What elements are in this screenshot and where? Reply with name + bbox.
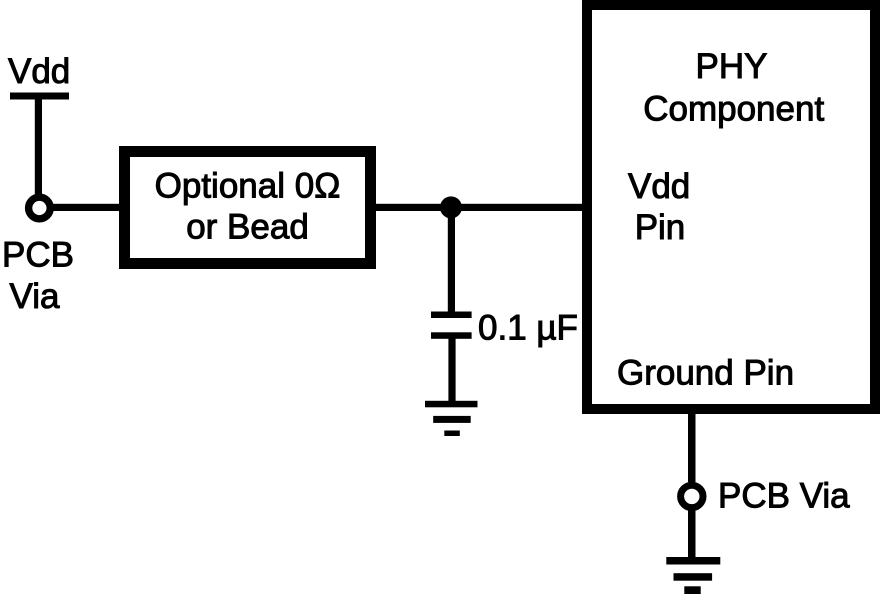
svg-text:0.1 µF: 0.1 µF (478, 309, 578, 348)
svg-text:or Bead: or Bead (186, 208, 309, 247)
svg-text:Ground Pin: Ground Pin (617, 354, 794, 393)
svg-text:Via: Via (10, 277, 60, 316)
label PHY Component (643, 47, 824, 128)
pin label Vdd Pin (628, 167, 690, 247)
svg-text:PCB Via: PCB Via (718, 477, 850, 516)
svg-text:Vdd: Vdd (628, 167, 690, 206)
wire (688, 414, 696, 482)
PHY component box U1 (587, 5, 875, 409)
svg-text:Optional 0Ω: Optional 0Ω (155, 167, 341, 206)
capacitor C1 (431, 312, 472, 339)
wire (35, 99, 42, 196)
svg-text:Vdd: Vdd (8, 52, 70, 91)
ground (below capacitor) (425, 401, 478, 436)
resistor R1 box (Optional 0 ohm or Bead) (125, 152, 371, 264)
PCB via (left) (29, 197, 51, 219)
junction node A (440, 196, 462, 218)
wire (448, 207, 455, 312)
svg-text:PCB: PCB (2, 236, 74, 275)
wire (688, 510, 696, 557)
svg-text:Pin: Pin (635, 208, 686, 247)
value label Optional 0 ohm or Bead (155, 167, 341, 247)
label PCB Via (left) (2, 236, 74, 317)
wire (448, 338, 455, 402)
svg-text:Component: Component (643, 89, 824, 128)
PCB via (right) (681, 485, 703, 507)
ground (below via) (666, 557, 720, 594)
wire (53, 204, 121, 211)
svg-text:PHY: PHY (696, 47, 768, 86)
wire (370, 204, 582, 211)
power symbol Vdd (10, 93, 69, 100)
